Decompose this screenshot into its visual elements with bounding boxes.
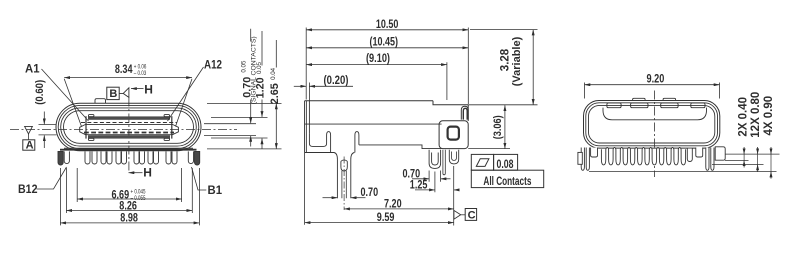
dim 0.70 left pair [323,197,338,199]
right side ext lines [204,104,282,149]
svg-text:9.20: 9.20 [647,71,665,85]
thin middle pin [443,150,445,175]
svg-text:H: H [144,82,153,96]
leg1 inner lines [342,171,346,198]
rear shell outline 3 [589,105,715,143]
board lock inner window [448,127,459,140]
latch hook D inner [463,108,467,119]
flatness frame boxes [471,154,493,170]
latch hook D outer [461,106,468,119]
leg1 right side [351,153,355,199]
contact strip end tabs [89,115,94,117]
pin B inner [452,152,457,161]
svg-text:A12: A12 [204,57,222,71]
datum A box [28,134,30,140]
horizontal centerline [10,129,237,131]
svg-text:(9.10): (9.10) [366,51,390,65]
svg-text:3.28: 3.28 [499,48,511,71]
datum C flag triangle [454,210,461,219]
rear shell outer outline [584,101,720,149]
svg-text:0.05: 0.05 [256,61,263,74]
contact pins wavy row [601,147,685,164]
dim 8.34 ext right oblique [176,79,193,127]
svg-text:8.98: 8.98 [120,211,138,225]
ext verticals bottom dims [305,153,454,226]
board lock block [439,121,468,149]
spring hook 2 [355,132,359,153]
dim 9.59 [305,222,454,224]
svg-text:0.70: 0.70 [361,185,379,199]
dim (0.60) ext lines [39,125,57,135]
body top right step [433,101,468,105]
front lip inner vertical [308,101,310,134]
svg-text:0.08: 0.08 [497,157,514,171]
dim (0.60) upper arrow [43,112,45,125]
dim (9.10) [306,64,447,66]
dim 1.20 arrows [261,106,263,117]
svg-text:(10.45): (10.45) [370,34,399,48]
dim 12X 0.80 arrows [757,147,759,154]
ext verticals 9.20 [585,83,720,99]
rear shell outline 2 [586,103,718,146]
dim 2.65 line [275,104,277,149]
cavity floor line [305,123,442,125]
ext lines right dims [589,154,780,172]
front lip wall line [306,101,308,153]
dim (10.45) [306,47,468,49]
dim 7.20 [344,208,454,210]
dim connector lines [744,154,771,172]
svg-text:H: H [143,166,152,180]
datum C box [465,209,476,221]
spring channel [309,132,330,153]
H direction arrow bottom [129,172,143,174]
svg-text:C: C [468,209,476,221]
svg-text:A: A [26,139,34,151]
vertical centerline [128,98,130,173]
right small hook [687,149,692,162]
datum B triangle [119,88,129,98]
pin B bullet [449,150,458,164]
leg2 inner U [432,153,439,166]
H direction arrow top [131,88,144,90]
top contact strip [88,116,170,119]
top spring bumps above [633,98,646,100]
leg2 bullet [429,150,441,169]
tongue end vertical left [85,116,87,138]
dim 8.34 ext left oblique [64,79,81,127]
body left edge [304,101,306,153]
hidden contacts dashed row top [81,122,177,124]
ext verticals top dims [306,28,468,105]
svg-text:2X 0.40: 2X 0.40 [738,97,750,137]
svg-text:1.25: 1.25 [410,178,428,192]
svg-text:8.34: 8.34 [115,62,133,76]
svg-text:10.50: 10.50 [376,17,399,31]
dim 9.20 [585,84,720,86]
shell cavity outline [64,111,194,144]
bottom contact strip [88,135,170,138]
right shell mounting tab dark [195,151,200,165]
dim (0.20) [294,85,306,87]
left step tab [591,148,598,158]
svg-text:– 0.03: – 0.03 [134,70,147,77]
svg-text:1.20: 1.20 [254,77,266,98]
dim 8.34 line [64,77,192,79]
cavity opening rear [603,108,707,120]
dim 0.70 arrows right col [250,113,252,124]
shell bottom inner line [64,147,193,149]
dim 2X 0.40 arrows [743,147,745,154]
svg-text:4X 0.90: 4X 0.90 [763,96,775,136]
A12 leader [168,67,204,121]
body top edge [305,100,433,102]
dim (3.06) [468,148,510,150]
leg1 left side [334,153,337,199]
dim 10.50 [306,29,468,31]
svg-text:2.65: 2.65 [269,83,281,104]
svg-text:B1: B1 [208,183,223,197]
leg1 centerline [343,157,345,211]
dim 6.69 [77,168,181,202]
skirt bottom edge [305,152,334,154]
body right edge [467,105,469,121]
dim 1.25 [415,189,435,191]
dim (0.60) lower arrow [43,135,45,148]
svg-text:B: B [109,88,117,100]
RIGHT-VIEW [578,83,780,179]
shell outer outline [56,103,201,151]
right end leg pins [706,148,709,171]
svg-text:9.59: 9.59 [377,210,395,224]
left shell mounting tab dark [58,151,63,165]
svg-text:7.20: 7.20 [384,197,402,211]
shell top seam tab [95,99,106,104]
dim 0.70 right pair [412,178,429,180]
dim 8.98 [60,168,199,225]
shell bottom thick band [60,149,197,151]
left end leg pins [581,148,584,171]
LEFT-VIEW [10,29,282,226]
insulator lower edge [359,145,442,149]
right step tab [696,148,703,158]
right protruding lug [715,147,725,160]
datum A triangle [25,126,33,133]
svg-text:0.04: 0.04 [270,67,277,80]
left outer pin hollow [64,151,69,163]
svg-text:0.05: 0.05 [241,60,248,73]
dim 4X 0.90 arrows [770,147,772,154]
svg-text:(0.20): (0.20) [324,73,349,87]
A1 leader [42,69,89,121]
svg-text:All Contacts: All Contacts [483,174,531,188]
shell outline 2 [58,105,199,148]
svg-text:B12: B12 [18,182,38,196]
right outer pin hollow [188,151,193,163]
B12 leader [37,167,67,189]
vertical centerline [653,91,655,178]
svg-text:(3.06): (3.06) [492,115,504,139]
dim column upper segments [251,29,277,113]
MIDDLE-VIEW [294,28,544,226]
svg-text:(Variable): (Variable) [511,36,523,86]
svg-text:12X 0.80: 12X 0.80 [750,92,762,138]
leg1 inner U [341,161,347,171]
leg1 U top arc [341,160,347,161]
shell outline 3 [61,108,197,146]
left protrusion tab [578,152,582,164]
B1 leader [192,167,207,190]
dim 3.28 variable [470,29,538,31]
svg-text:(0.60): (0.60) [34,80,46,105]
top latch notches [607,103,621,108]
all contacts box [471,170,543,187]
leg pins row [85,151,90,164]
datum B box [107,87,119,99]
dim 8.26 [66,168,192,213]
tongue outline [80,124,179,134]
tongue end vertical right [171,116,173,138]
hidden contacts dashed row bottom bold [84,132,174,134]
flatness parallelogram symbol [476,159,489,167]
svg-text:A1: A1 [25,62,40,76]
